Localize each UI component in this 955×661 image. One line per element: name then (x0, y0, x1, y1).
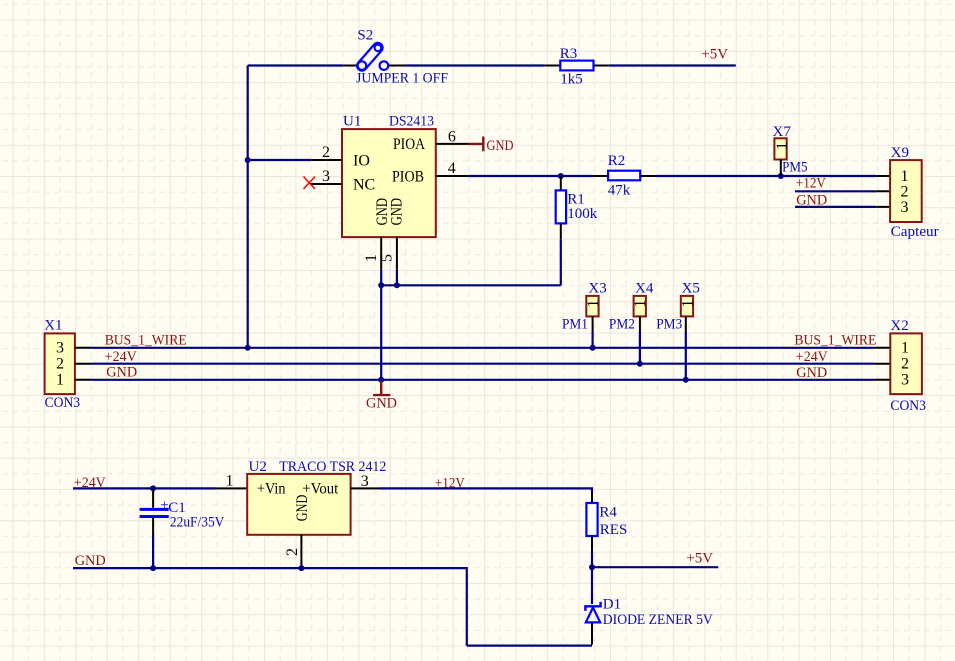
node junction vertical meets BUS_1_WIRE (245, 345, 251, 351)
connector X2 pin stubs (875, 348, 891, 380)
op-amp U1 DS2413 body (342, 129, 436, 237)
wire horizontal under U1 to R1 bottom (381, 284, 561, 286)
connector X5 pin stub (685, 316, 687, 331)
wire R1 bottom to horizontal (560, 239, 562, 285)
svg-text:1k5: 1k5 (560, 72, 583, 88)
no-connect X on pin 3 (304, 177, 316, 190)
wire vertical x381 down to GND bus (380, 285, 382, 380)
wire BUS_1_WIRE bus line (91, 347, 874, 349)
wire C1 to GND line (152, 534, 154, 568)
connector X9 body (890, 160, 922, 222)
wire U2 pin2 to GND line (300, 566, 302, 569)
node junction X4 bus (637, 361, 643, 367)
regulator U2 pin2 stub (300, 535, 302, 566)
svg-text:GND: GND (487, 138, 514, 154)
wire D1 anode return (467, 644, 592, 646)
svg-text:R2: R2 (608, 153, 626, 169)
svg-text:DS2413: DS2413 (389, 113, 434, 129)
svg-text:CON3: CON3 (45, 395, 81, 411)
wire GND bus line (91, 379, 874, 381)
svg-text:47k: 47k (608, 183, 631, 199)
resistor R4 bottom stub (591, 536, 593, 552)
switch S2 pin stubs (343, 65, 405, 67)
resistor R1 bottom stub (560, 223, 562, 239)
svg-text:1: 1 (363, 254, 380, 262)
wire +24V bottom line (73, 487, 215, 489)
wire R2 to X9 pin1 (656, 175, 876, 177)
wire +5V node down to D1 (591, 567, 593, 604)
svg-text:3: 3 (901, 372, 909, 389)
resistor R4 body (586, 503, 597, 536)
resistor R1 top stub (560, 176, 562, 190)
svg-text:3: 3 (901, 199, 909, 216)
wire GND bottom line (73, 568, 467, 646)
svg-text:S2: S2 (357, 28, 373, 44)
svg-text:1: 1 (901, 340, 909, 357)
pin 6 stub PIOA (436, 143, 469, 145)
pin 5 stub GND (396, 237, 398, 270)
wire +24V bus line (91, 363, 874, 365)
svg-text:IO: IO (353, 152, 370, 169)
node junction X7 (778, 173, 784, 179)
svg-text:GND: GND (366, 396, 397, 412)
svg-text:2: 2 (901, 356, 909, 373)
pin 4 stub PIOB (436, 175, 469, 177)
svg-text:GND: GND (796, 192, 827, 208)
wire +5V bottom (592, 566, 718, 568)
svg-text:2: 2 (56, 356, 64, 373)
svg-text:DIODE ZENER 5V: DIODE ZENER 5V (603, 612, 713, 628)
svg-text:X4: X4 (635, 280, 654, 296)
node junction C1 bottom (150, 565, 156, 571)
connector X9 pin stubs (876, 176, 890, 207)
svg-text:PM1: PM1 (562, 317, 588, 333)
svg-text:X2: X2 (890, 318, 908, 334)
svg-text:+24V: +24V (105, 349, 137, 365)
svg-text:+12V: +12V (796, 176, 826, 192)
node junction X5 bus (683, 377, 689, 383)
svg-text:R3: R3 (560, 46, 578, 62)
ground power port at pin 6 (469, 137, 514, 155)
svg-text:1: 1 (632, 300, 649, 308)
capacitor C1 bottom stub (152, 518, 154, 534)
svg-text:1: 1 (585, 300, 602, 308)
svg-text:D1: D1 (603, 596, 621, 612)
svg-text:3: 3 (322, 168, 330, 185)
connector X3 body (586, 296, 598, 317)
svg-text:+Vin: +Vin (257, 480, 285, 497)
wire pin1 to horizontal (380, 270, 382, 286)
svg-text:U2: U2 (249, 459, 267, 475)
svg-text:22uF/35V: 22uF/35V (170, 514, 225, 530)
svg-text:6: 6 (448, 128, 456, 145)
node junction pin1 (378, 282, 384, 288)
capacitor C1 top stub (152, 488, 154, 507)
svg-text:1: 1 (226, 472, 234, 489)
connector X7 pin stub (780, 160, 782, 177)
wire R3 to +5V (609, 64, 735, 66)
wire X5 to GND bus (685, 332, 687, 380)
svg-text:R1: R1 (567, 191, 585, 207)
svg-text:X5: X5 (682, 280, 700, 296)
svg-text:5: 5 (379, 254, 396, 262)
wire GND to X9 pin3 (795, 206, 876, 208)
svg-text:JUMPER 1 OFF: JUMPER 1 OFF (356, 71, 448, 87)
svg-text:PIOA: PIOA (393, 136, 425, 153)
wire +12V to X9 pin2 (795, 190, 876, 192)
svg-text:X3: X3 (588, 280, 606, 296)
connector X4 pin stub (639, 316, 641, 331)
svg-text:TRACO TSR 2412: TRACO TSR 2412 (279, 459, 386, 475)
node junction C1 top (150, 485, 156, 491)
svg-text:+5V: +5V (701, 47, 728, 63)
svg-text:R4: R4 (599, 505, 617, 521)
svg-text:RES: RES (600, 522, 628, 538)
svg-text:GND: GND (106, 365, 137, 381)
svg-text:PIOB: PIOB (392, 168, 424, 185)
svg-text:2: 2 (901, 183, 909, 200)
svg-text:X9: X9 (891, 145, 909, 161)
diode D1 bottom stub (591, 622, 593, 644)
wire +12V from U2 to R4 (380, 488, 592, 492)
node junction U2 pin2 (298, 565, 304, 571)
regulator U2 body (247, 474, 350, 535)
svg-text:X7: X7 (773, 124, 792, 140)
svg-text:GND: GND (294, 495, 311, 522)
svg-text:4: 4 (448, 160, 456, 177)
node junction IO tee (245, 157, 251, 163)
svg-text:U1: U1 (343, 113, 361, 129)
connector X1 pin stubs (75, 348, 92, 380)
connector X5 body (681, 296, 693, 317)
svg-text:100k: 100k (567, 206, 598, 222)
svg-text:PM5: PM5 (782, 160, 808, 176)
node junction pin5 (394, 282, 400, 288)
wire PIOB net to R2 (468, 175, 593, 177)
resistor R3 body (560, 61, 593, 71)
wire pin5 to horizontal (396, 270, 398, 286)
svg-text:CON3: CON3 (890, 398, 926, 414)
wire X4 to +24V (639, 332, 641, 364)
svg-text:PM2: PM2 (609, 317, 635, 333)
wire between S2 and R3 (406, 64, 545, 66)
svg-text:+24V: +24V (796, 349, 828, 365)
svg-text:+5V: +5V (686, 551, 713, 567)
svg-text:1: 1 (56, 372, 64, 389)
resistor R2 stubs (593, 175, 656, 177)
diode D1 zener (585, 602, 600, 623)
svg-text:GND: GND (796, 365, 827, 381)
svg-text:GND: GND (75, 553, 106, 569)
svg-text:2: 2 (322, 144, 330, 161)
resistor R1 body (556, 190, 566, 223)
wire R4 to +5V node (591, 552, 593, 568)
ground power port under bus (366, 381, 397, 412)
switch S2 jumper symbol (355, 41, 388, 73)
svg-text:1: 1 (774, 142, 791, 150)
node junction R1 top (558, 173, 564, 179)
connector X4 body (634, 296, 646, 317)
pin 2 stub (312, 159, 342, 161)
connector X7 body (774, 138, 786, 159)
node junction X3 bus (590, 345, 596, 351)
svg-text:2: 2 (284, 548, 301, 556)
svg-text:BUS_1_WIRE: BUS_1_WIRE (794, 333, 876, 349)
pin 1 stub GND (380, 237, 382, 270)
svg-text:+12V: +12V (435, 476, 465, 492)
svg-text:BUS_1_WIRE: BUS_1_WIRE (105, 333, 187, 349)
pin 3 stub NC (310, 183, 342, 185)
svg-text:3: 3 (56, 340, 64, 357)
resistor R4 top stub (591, 492, 593, 503)
svg-text:3: 3 (361, 473, 369, 490)
connector X3 pin stub (592, 316, 594, 331)
svg-text:NC: NC (353, 177, 375, 194)
svg-text:GND: GND (388, 198, 405, 226)
wire vertical bus from top wire down to BUS_1_WIRE (247, 66, 249, 348)
resistor R2 body (608, 171, 640, 181)
svg-text:X1: X1 (44, 318, 62, 334)
connector X1 body (45, 333, 75, 394)
wire U1 pin2 IO from vertical bus (248, 159, 312, 161)
regulator U2 pin1 stub (215, 487, 247, 489)
resistor R3 pin stubs (544, 65, 609, 67)
svg-text:1: 1 (679, 300, 696, 308)
regulator U2 pin3 stub (351, 487, 380, 489)
capacitor C1 plates (140, 508, 169, 511)
wire X3 to BUS_1_WIRE (591, 332, 593, 348)
svg-text:PM3: PM3 (656, 317, 682, 333)
connector X2 body (890, 333, 922, 394)
node junction +5V (589, 564, 595, 570)
svg-text:Capteur: Capteur (891, 224, 939, 240)
wire top +5V line left segment (248, 64, 344, 66)
node junction GND power under bus (378, 377, 384, 383)
